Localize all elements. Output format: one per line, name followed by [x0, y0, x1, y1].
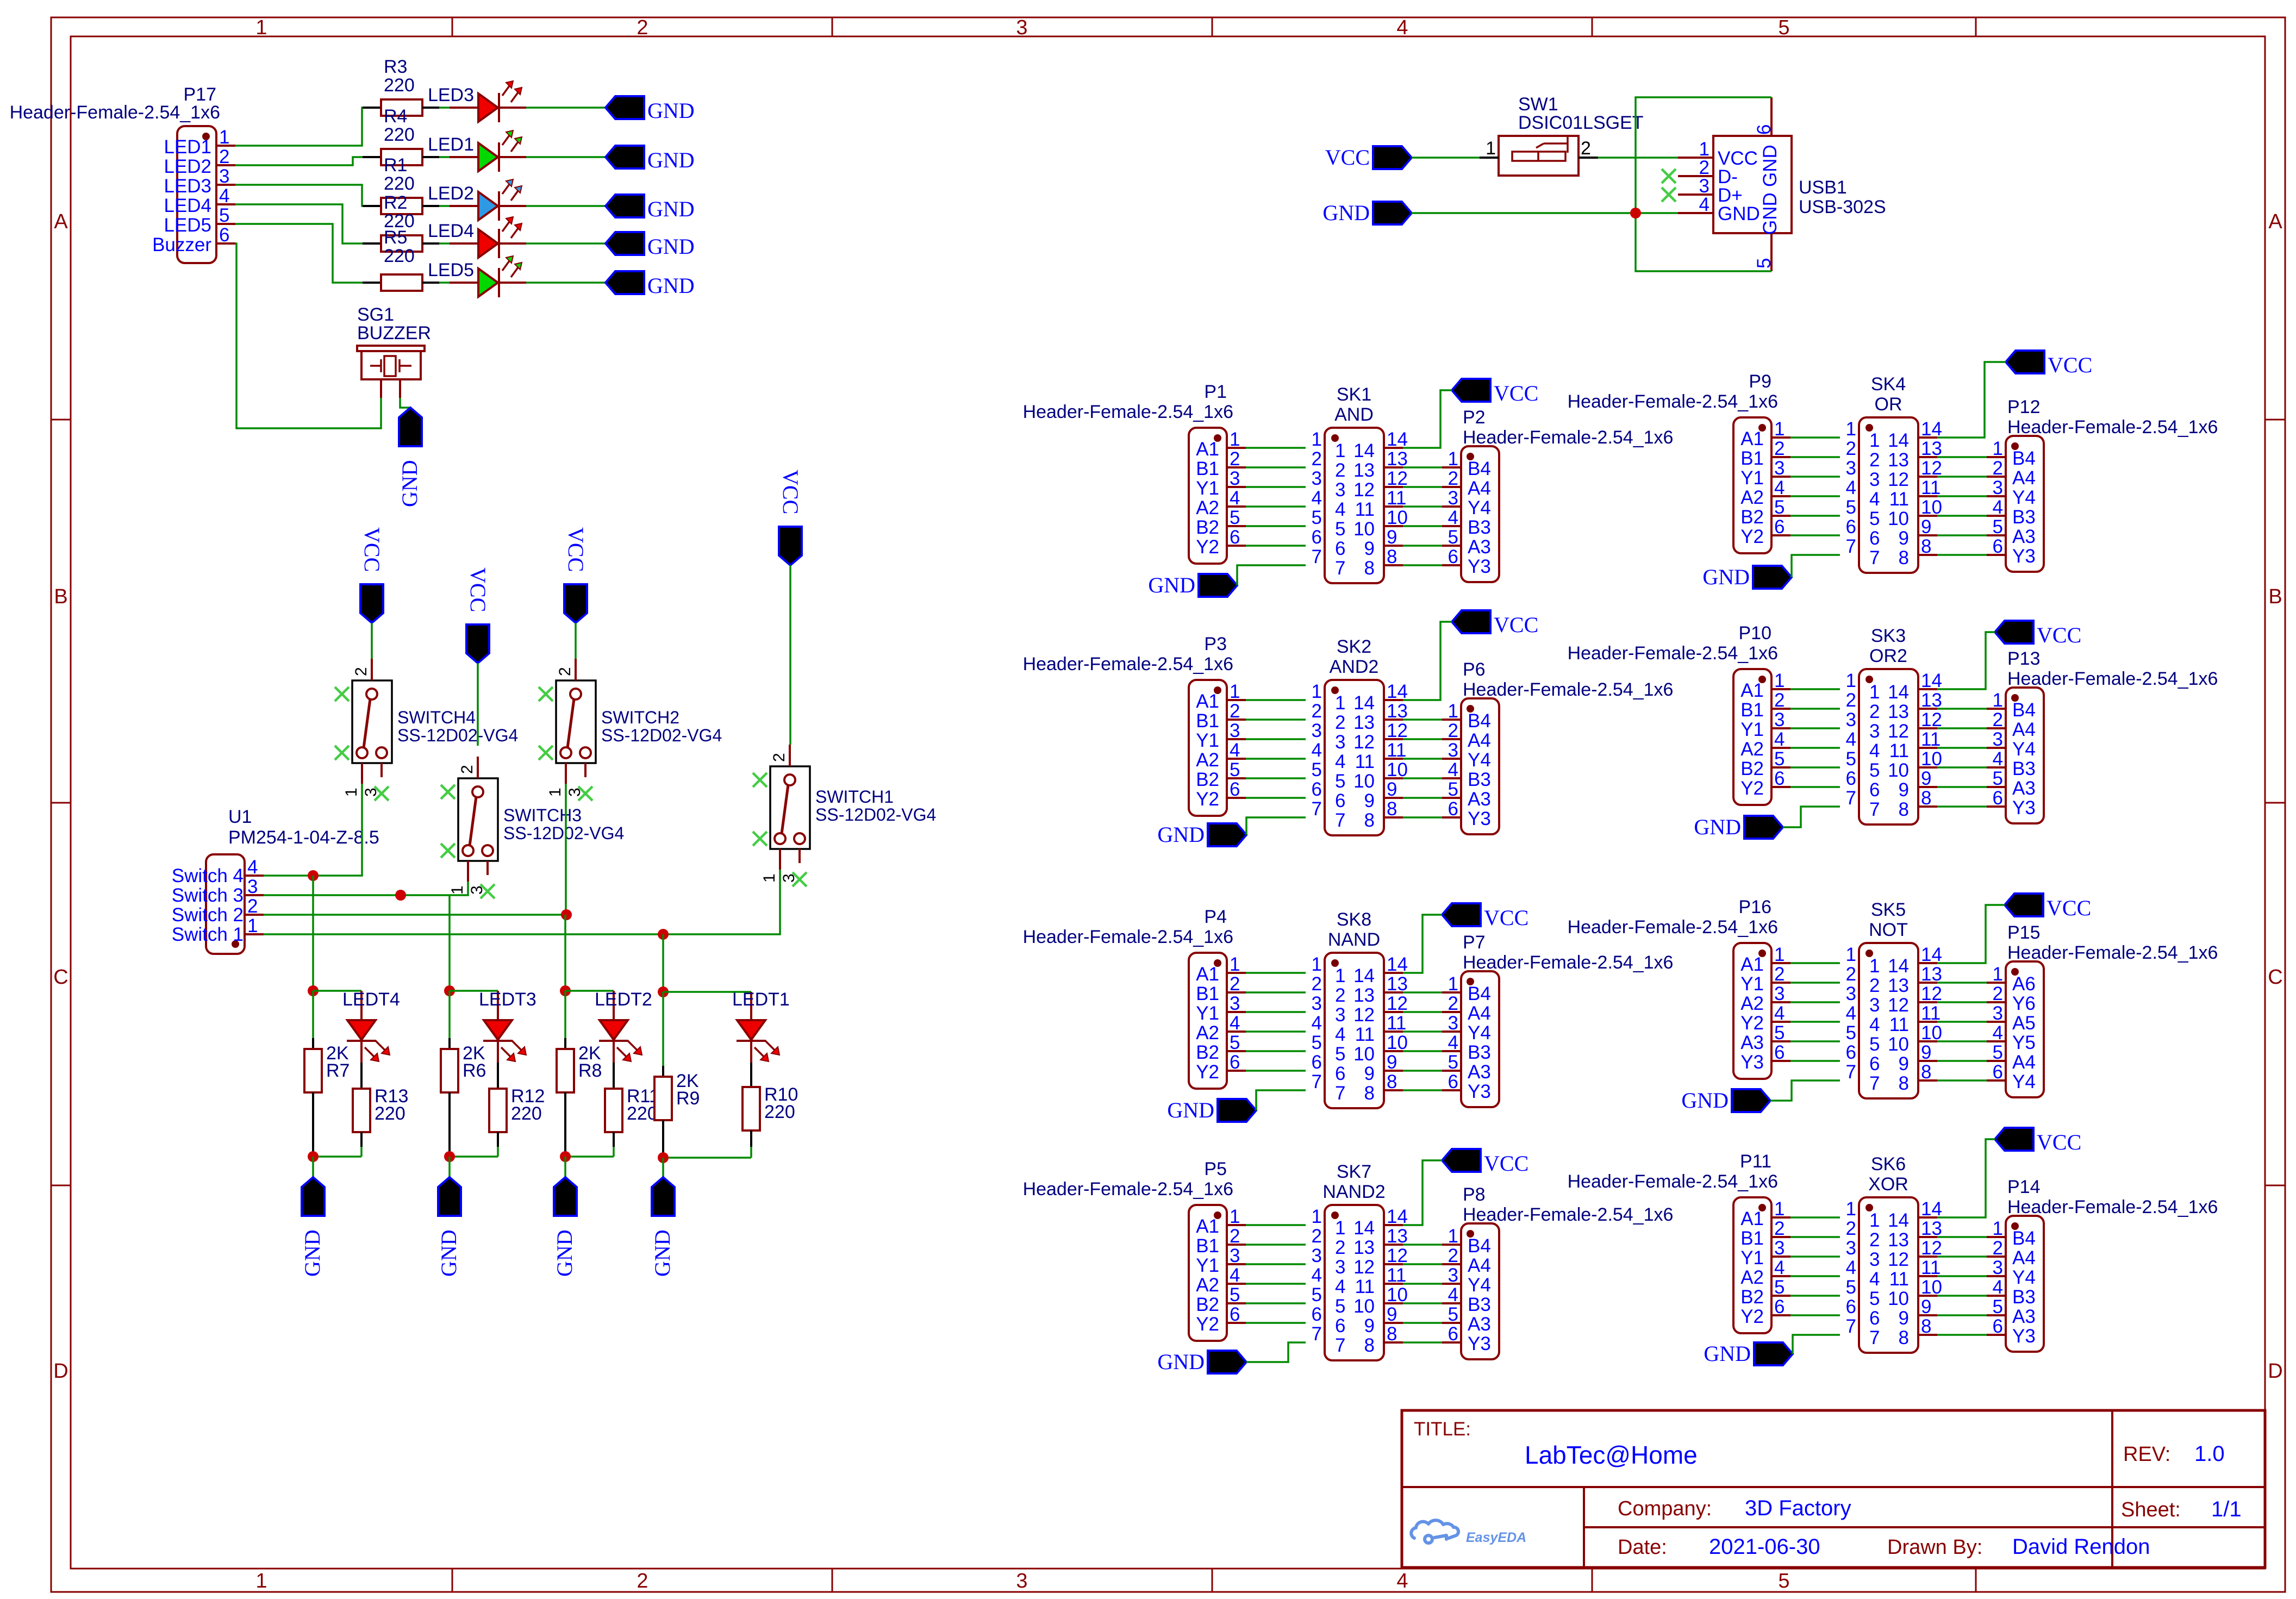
resistor R5 [363, 227, 439, 291]
wire SK1.13 to P2.1 [1403, 466, 1442, 469]
resistor R13 (220) [353, 1063, 408, 1157]
svg-text:SW1: SW1 [1518, 94, 1558, 115]
no-connect X SWITCH1 pins [753, 773, 807, 886]
svg-text:2: 2 [1774, 438, 1785, 459]
svg-text:4: 4 [1774, 729, 1785, 750]
svg-text:2: 2 [1774, 690, 1785, 711]
wire SK3.8 to P13.6 [1937, 805, 1987, 808]
svg-text:4: 4 [1993, 1022, 2003, 1044]
svg-text:B4: B4 [1468, 458, 1491, 479]
wire SK4.14 to VCC [1937, 362, 2006, 438]
svg-text:Y2: Y2 [1196, 1061, 1219, 1083]
wire down from row to LEDT3 [448, 895, 451, 991]
junction U1.4 row [308, 870, 319, 881]
svg-text:2: 2 [1869, 975, 1880, 996]
power flag VCC at SK8 [1442, 903, 1528, 930]
svg-text:2: 2 [1869, 701, 1880, 722]
svg-text:8: 8 [1387, 1323, 1397, 1345]
wire P11.3 to SK6.3 [1790, 1256, 1840, 1258]
wire SK3.14 to VCC [1937, 632, 1995, 689]
svg-text:A4: A4 [1468, 1255, 1491, 1276]
wire P3.6 to SK2.6 [1246, 797, 1306, 799]
svg-text:GND: GND [650, 1229, 675, 1277]
svg-text:1: 1 [255, 16, 267, 39]
svg-text:14: 14 [1387, 954, 1408, 975]
svg-text:GND: GND [1148, 573, 1195, 597]
svg-text:1: 1 [1335, 1217, 1345, 1239]
svg-text:NAND: NAND [1328, 929, 1380, 950]
svg-text:5: 5 [1774, 497, 1785, 518]
svg-text:6: 6 [1774, 768, 1785, 789]
svg-text:3: 3 [1448, 1265, 1458, 1286]
svg-text:14: 14 [1353, 965, 1375, 986]
wire P17.3 to R1 [235, 185, 363, 206]
svg-text:A1: A1 [1740, 680, 1764, 701]
svg-text:NAND2: NAND2 [1322, 1182, 1385, 1202]
svg-text:A1: A1 [1196, 439, 1219, 460]
svg-text:2: 2 [1774, 1218, 1785, 1239]
svg-text:4: 4 [1993, 748, 2003, 770]
svg-text:11: 11 [1921, 1257, 1941, 1278]
svg-text:5: 5 [1993, 768, 2003, 789]
svg-text:6: 6 [1869, 528, 1880, 549]
ground flag GND at SG1 [397, 408, 422, 507]
junction LEDT3 top [444, 985, 455, 996]
svg-text:5: 5 [1846, 1277, 1856, 1298]
svg-text:9: 9 [1364, 790, 1375, 811]
IC SK4 (OR) [1846, 374, 1942, 573]
svg-text:11: 11 [1889, 1269, 1909, 1290]
svg-text:LabTec@Home: LabTec@Home [1525, 1441, 1698, 1469]
buzzer SG1 [357, 304, 431, 398]
svg-text:GND: GND [1760, 192, 1781, 235]
wire SK4.13 to P12.1 [1937, 456, 1987, 458]
wire SK3.13 to P13.1 [1937, 708, 1987, 710]
svg-text:Header-Female-2.54_1x6: Header-Female-2.54_1x6 [1023, 1179, 1233, 1200]
wire SK1.11 to P2.3 [1403, 505, 1442, 508]
svg-text:7: 7 [1312, 798, 1322, 820]
svg-text:Y2: Y2 [1740, 1013, 1764, 1034]
svg-text:2: 2 [770, 753, 788, 762]
svg-text:9: 9 [1899, 528, 1909, 549]
svg-text:VCC: VCC [1484, 1151, 1528, 1176]
svg-text:6: 6 [219, 224, 229, 246]
svg-text:2: 2 [1335, 460, 1345, 481]
svg-text:2: 2 [1335, 1237, 1345, 1258]
svg-text:VCC: VCC [2037, 623, 2081, 647]
junction LEDT2 top [560, 985, 571, 996]
svg-text:LED3: LED3 [164, 176, 211, 197]
svg-text:9: 9 [1364, 1315, 1375, 1336]
wire down from row to LEDT4 [312, 876, 314, 991]
svg-text:REV:: REV: [2123, 1443, 2170, 1466]
svg-text:8: 8 [1921, 1061, 1931, 1083]
header P15 [1987, 922, 2218, 1097]
svg-text:Buzzer: Buzzer [152, 234, 211, 255]
svg-text:Y1: Y1 [1196, 1255, 1219, 1276]
svg-text:1: 1 [1846, 419, 1856, 440]
svg-text:8: 8 [1364, 1335, 1375, 1356]
wire SK7.11 to P8.3 [1403, 1283, 1442, 1285]
wire SK2.9 to P6.5 [1403, 797, 1442, 799]
svg-text:9: 9 [1387, 527, 1397, 548]
svg-text:10: 10 [1921, 497, 1942, 518]
junction LEDT3 bottom [444, 1151, 455, 1162]
switch SWITCH4 [342, 659, 518, 797]
svg-text:5: 5 [1230, 1284, 1240, 1306]
ground flag GND below LEDT1 [650, 1177, 675, 1277]
wire SK4.12 to P12.2 [1937, 476, 1987, 478]
svg-text:10: 10 [1387, 1284, 1408, 1306]
svg-text:GND: GND [1167, 1098, 1214, 1122]
svg-text:VCC: VCC [1325, 145, 1370, 170]
svg-text:3: 3 [1774, 458, 1785, 479]
junction U1.2 row [561, 909, 572, 920]
svg-text:P8: P8 [1463, 1184, 1486, 1205]
svg-text:3: 3 [1869, 1249, 1880, 1270]
svg-text:6: 6 [1335, 1315, 1345, 1336]
no-connect X SWITCH4 pins [335, 687, 389, 801]
svg-text:13: 13 [1921, 690, 1942, 711]
svg-text:LEDT1: LEDT1 [732, 989, 790, 1010]
svg-text:6: 6 [1448, 1323, 1458, 1345]
svg-text:B3: B3 [1468, 1294, 1491, 1315]
svg-text:VCC: VCC [466, 567, 490, 612]
svg-text:Date:: Date: [1618, 1536, 1667, 1559]
svg-text:Header-Female-2.54_1x6: Header-Female-2.54_1x6 [1568, 917, 1778, 938]
svg-text:13: 13 [1387, 448, 1408, 470]
svg-text:1: 1 [1230, 1206, 1240, 1227]
svg-text:12: 12 [1888, 469, 1909, 490]
svg-text:2: 2 [1448, 993, 1458, 1014]
svg-text:3: 3 [1448, 740, 1458, 761]
wire P4.2 to SK8.2 [1246, 991, 1306, 994]
svg-text:13: 13 [1921, 438, 1942, 459]
svg-text:7: 7 [1869, 1073, 1880, 1094]
wire P11.1 to SK6.1 [1790, 1216, 1840, 1219]
wire P9.6 to SK4.6 [1790, 534, 1840, 536]
svg-text:B4: B4 [2012, 1228, 2036, 1249]
svg-text:6: 6 [1312, 779, 1322, 800]
svg-text:2: 2 [1312, 1226, 1322, 1247]
svg-text:1: 1 [1335, 965, 1345, 986]
svg-text:2: 2 [458, 765, 476, 774]
svg-text:A3: A3 [2012, 526, 2036, 547]
svg-text:Y1: Y1 [1740, 1247, 1764, 1269]
svg-text:10: 10 [1888, 508, 1909, 529]
wire SK8.13 to P7.1 [1403, 991, 1442, 994]
svg-text:7: 7 [1312, 1071, 1322, 1092]
ground flag GND at USB1 [1322, 201, 1412, 225]
svg-text:4: 4 [1448, 1284, 1458, 1306]
svg-text:GND: GND [300, 1229, 325, 1277]
svg-text:14: 14 [1353, 440, 1375, 461]
svg-text:6: 6 [1754, 124, 1775, 135]
svg-text:B1: B1 [1196, 983, 1219, 1004]
no-connect X USB1.2 [1662, 169, 1676, 183]
svg-text:4: 4 [1846, 477, 1856, 498]
wire LED3 to GND [526, 107, 606, 109]
header P1 [1023, 382, 1246, 564]
svg-text:Y1: Y1 [1740, 973, 1764, 995]
svg-text:11: 11 [1387, 1013, 1406, 1034]
svg-text:4: 4 [1396, 16, 1408, 39]
svg-text:3: 3 [1312, 993, 1322, 1014]
power flag VCC at SW1 [1325, 145, 1412, 170]
wire P10.5 to SK3.5 [1790, 766, 1840, 769]
ground flag GND row 4 [606, 232, 695, 259]
header P10 [1568, 623, 1790, 805]
svg-text:11: 11 [1889, 740, 1909, 761]
header P9 [1568, 371, 1790, 553]
svg-text:5: 5 [1230, 759, 1240, 780]
svg-text:3: 3 [1993, 729, 2003, 750]
svg-text:1: 1 [247, 915, 258, 936]
header P5 [1023, 1159, 1246, 1341]
svg-text:6: 6 [1993, 1316, 2003, 1337]
power flag VCC at SK4 [2006, 351, 2092, 377]
svg-text:9: 9 [1899, 779, 1909, 801]
svg-text:14: 14 [1921, 944, 1942, 965]
svg-text:14: 14 [1387, 429, 1408, 450]
svg-text:R4: R4 [384, 106, 407, 127]
wire P4.1 to SK8.1 [1246, 972, 1306, 974]
svg-text:7: 7 [1846, 1061, 1856, 1083]
svg-text:Header-Female-2.54_1x6: Header-Female-2.54_1x6 [1568, 1171, 1778, 1192]
svg-text:A: A [54, 210, 68, 233]
svg-text:R1: R1 [384, 155, 407, 176]
svg-text:5: 5 [1335, 771, 1345, 792]
svg-text:VCC: VCC [564, 527, 588, 572]
wire SK5.13 to P15.1 [1937, 982, 1987, 984]
resistor R11 (220) [605, 1063, 659, 1157]
svg-text:6: 6 [1448, 1071, 1458, 1092]
svg-text:P2: P2 [1463, 407, 1486, 428]
LED LEDT1 [732, 989, 790, 1063]
svg-text:2: 2 [1774, 964, 1785, 985]
svg-text:Switch 3: Switch 3 [172, 885, 244, 906]
wire P11.6 to SK6.6 [1790, 1314, 1840, 1316]
svg-text:SK4: SK4 [1871, 374, 1906, 395]
svg-text:2: 2 [1230, 1226, 1240, 1247]
IC SK7 (NAND2) [1312, 1161, 1408, 1360]
svg-text:1: 1 [1846, 1198, 1856, 1220]
svg-text:B2: B2 [1196, 1042, 1219, 1063]
wire LED2 to GND [526, 205, 606, 207]
svg-text:4: 4 [1846, 1257, 1856, 1278]
svg-text:SS-12D02-VG4: SS-12D02-VG4 [397, 726, 518, 745]
wire LEDT2 branch [565, 990, 614, 992]
svg-text:Y4: Y4 [2012, 487, 2036, 508]
svg-text:R5: R5 [384, 227, 407, 248]
svg-text:GND: GND [1718, 203, 1760, 224]
wire LEDT4 branch [313, 990, 361, 992]
wire P16.1 to SK5.1 [1790, 962, 1840, 964]
svg-text:6: 6 [1230, 1304, 1240, 1325]
svg-text:8: 8 [1364, 558, 1375, 579]
svg-text:Y2: Y2 [1196, 1314, 1219, 1335]
svg-text:6: 6 [1312, 1052, 1322, 1073]
svg-text:TITLE:: TITLE: [1414, 1419, 1471, 1440]
svg-text:7: 7 [1312, 1323, 1322, 1345]
svg-text:B2: B2 [1740, 1286, 1764, 1308]
svg-text:1: 1 [1448, 701, 1458, 722]
wire P16.3 to SK5.3 [1790, 1001, 1840, 1003]
svg-text:DSIC01LSGET: DSIC01LSGET [1518, 113, 1644, 133]
header P12 [1987, 397, 2218, 572]
svg-text:1: 1 [1869, 430, 1880, 451]
svg-text:8: 8 [1899, 799, 1909, 820]
svg-text:Header-Female-2.54_1x6: Header-Female-2.54_1x6 [1568, 643, 1778, 664]
svg-text:3: 3 [1335, 1004, 1345, 1026]
svg-text:10: 10 [1353, 1044, 1375, 1065]
svg-text:9: 9 [1921, 1042, 1931, 1063]
svg-text:2: 2 [1846, 690, 1856, 711]
svg-text:14: 14 [1888, 1210, 1909, 1231]
svg-text:2: 2 [637, 1570, 648, 1592]
svg-text:14: 14 [1353, 692, 1375, 714]
svg-text:5: 5 [1312, 507, 1322, 528]
svg-text:1: 1 [1774, 1198, 1785, 1220]
svg-text:13: 13 [1353, 460, 1375, 481]
svg-text:2: 2 [1846, 438, 1856, 459]
svg-text:A2: A2 [1196, 749, 1219, 771]
svg-text:4: 4 [1774, 477, 1785, 498]
wire SK7.13 to P8.1 [1403, 1244, 1442, 1246]
svg-text:Y1: Y1 [1740, 467, 1764, 489]
wire P3.3 to SK2.3 [1246, 738, 1306, 740]
svg-text:P15: P15 [2007, 922, 2041, 943]
header P4 [1023, 907, 1246, 1089]
svg-text:Y2: Y2 [1196, 536, 1219, 558]
resistor R10 (220) [743, 1063, 798, 1158]
svg-text:SWITCH2: SWITCH2 [601, 708, 679, 727]
svg-text:LED4: LED4 [164, 195, 211, 216]
svg-text:SWITCH1: SWITCH1 [815, 787, 894, 807]
svg-text:Y1: Y1 [1196, 1003, 1219, 1024]
svg-text:5: 5 [1335, 519, 1345, 540]
wire SK1.9 to P2.5 [1403, 545, 1442, 547]
svg-text:B3: B3 [1468, 1042, 1491, 1063]
wire P9.3 to SK4.3 [1790, 476, 1840, 478]
wire SK5.14 to VCC [1937, 905, 2005, 963]
svg-text:6: 6 [1993, 536, 2003, 557]
svg-text:GND: GND [1157, 1350, 1205, 1374]
wire P1.1 to SK1.1 [1246, 447, 1306, 449]
svg-text:2: 2 [1230, 973, 1240, 995]
svg-text:B3: B3 [2012, 1286, 2036, 1308]
wire SK2.14 to VCC [1403, 622, 1452, 700]
svg-text:1: 1 [1774, 419, 1785, 440]
ground flag GND below LEDT3 [436, 1177, 461, 1277]
svg-text:10: 10 [1353, 1296, 1375, 1317]
svg-text:Y1: Y1 [1740, 719, 1764, 740]
svg-text:1: 1 [1846, 944, 1856, 965]
LED LED3 [428, 81, 526, 122]
svg-text:13: 13 [1921, 1218, 1942, 1239]
svg-text:3: 3 [1993, 1257, 2003, 1278]
svg-text:GND: GND [647, 197, 695, 221]
svg-text:A3: A3 [2012, 778, 2036, 799]
switch SWITCH1 [760, 745, 936, 883]
svg-text:Header-Female-2.54_1x6: Header-Female-2.54_1x6 [1463, 679, 1673, 700]
svg-text:12: 12 [1921, 458, 1942, 479]
svg-text:Y4: Y4 [2012, 1071, 2036, 1092]
svg-text:B3: B3 [2012, 507, 2036, 528]
svg-text:P9: P9 [1749, 371, 1771, 392]
wire LED5 to GND [526, 282, 606, 284]
svg-text:SK2: SK2 [1337, 636, 1371, 657]
svg-text:Y4: Y4 [1468, 497, 1491, 519]
svg-text:10: 10 [1921, 1277, 1942, 1298]
svg-text:1: 1 [1312, 681, 1322, 702]
svg-text:LED4: LED4 [428, 221, 474, 241]
ground flag GND at SK7 [1157, 1350, 1246, 1374]
svg-text:4: 4 [1774, 1257, 1785, 1278]
header P17 [10, 84, 235, 263]
header P2 [1442, 407, 1673, 582]
svg-text:3: 3 [1230, 468, 1240, 489]
svg-text:D: D [2268, 1360, 2282, 1383]
svg-text:7: 7 [1869, 547, 1880, 569]
svg-text:220: 220 [384, 173, 415, 194]
power flag VCC at SK7 [1442, 1149, 1528, 1176]
junction LEDT1 bottom [658, 1152, 669, 1163]
svg-text:2: 2 [1230, 448, 1240, 470]
svg-text:12: 12 [1921, 1238, 1942, 1259]
svg-text:5: 5 [1335, 1296, 1345, 1317]
ground flag GND at SK2 [1157, 822, 1246, 847]
svg-text:13: 13 [1353, 985, 1375, 1006]
svg-text:1: 1 [1993, 964, 2003, 985]
svg-text:3: 3 [1448, 1013, 1458, 1034]
svg-text:3: 3 [1016, 16, 1027, 39]
svg-text:8: 8 [1921, 788, 1931, 809]
wire P17.2 to R4 [235, 157, 363, 165]
svg-text:2: 2 [1993, 1238, 2003, 1259]
switch SWITCH2 [546, 659, 722, 797]
wire P5.3 to SK7.3 [1246, 1263, 1306, 1265]
svg-text:4: 4 [219, 185, 229, 207]
svg-text:Header-Female-2.54_1x6: Header-Female-2.54_1x6 [1463, 952, 1673, 973]
junction LEDT2 bottom [560, 1151, 571, 1162]
svg-text:R2: R2 [384, 192, 407, 213]
svg-text:R7: R7 [326, 1060, 350, 1081]
svg-text:A4: A4 [1468, 1003, 1491, 1024]
wire P4.6 to SK8.6 [1246, 1070, 1306, 1072]
svg-text:1: 1 [448, 885, 466, 895]
svg-text:P14: P14 [2007, 1177, 2041, 1197]
wire LEDT3 bottom join [450, 1155, 498, 1158]
svg-text:B2: B2 [1196, 517, 1219, 538]
svg-text:2: 2 [1993, 983, 2003, 1004]
wire SWITCH4.1 to U1.4 [264, 784, 362, 876]
svg-text:SK7: SK7 [1337, 1161, 1371, 1182]
no-connect X USB1.3 [1662, 188, 1676, 202]
svg-text:12: 12 [1888, 995, 1909, 1016]
svg-text:4: 4 [1312, 488, 1322, 509]
svg-text:2: 2 [1312, 448, 1322, 470]
svg-text:A2: A2 [1196, 1275, 1219, 1296]
svg-text:5: 5 [1778, 1570, 1789, 1592]
svg-text:B1: B1 [1740, 448, 1764, 469]
svg-text:A1: A1 [1196, 964, 1219, 985]
svg-text:A2: A2 [1196, 497, 1219, 519]
header P8 [1442, 1184, 1673, 1359]
svg-text:1: 1 [1869, 682, 1880, 703]
svg-text:6: 6 [1774, 1042, 1785, 1063]
svg-text:12: 12 [1353, 732, 1375, 753]
